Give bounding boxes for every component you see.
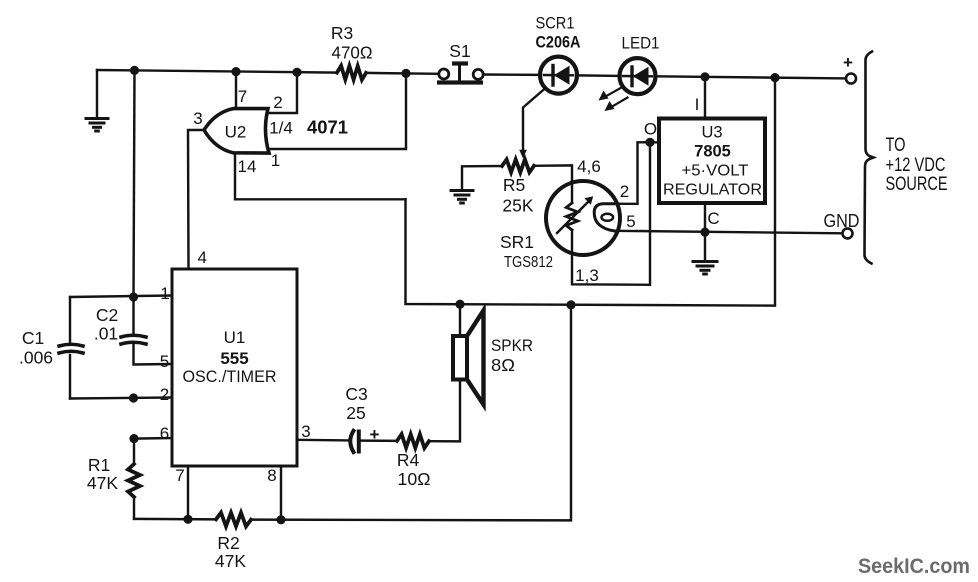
svg-text:4071: 4071 — [307, 118, 348, 138]
capacitor C2 .01 — [121, 297, 146, 344]
wire R4 to speaker — [429, 380, 460, 442]
svg-text:SPKR: SPKR — [491, 336, 533, 355]
wire U3 pin I to rail — [704, 77, 706, 119]
resistor R1 47K — [128, 439, 140, 519]
svg-text:R4: R4 — [397, 450, 420, 470]
svg-text:C206A: C206A — [536, 34, 581, 52]
wire bottom rail — [134, 518, 216, 521]
svg-text:C1: C1 — [22, 328, 44, 348]
svg-text:3: 3 — [193, 109, 202, 128]
wire U2 pin 14 down — [235, 153, 406, 199]
wire SCR1 gate to R5 wiper — [519, 89, 545, 159]
wire U2 pin 2 to rail — [268, 72, 297, 113]
svg-text:C2: C2 — [96, 305, 118, 325]
svg-text:470Ω: 470Ω — [332, 43, 373, 63]
ground (U3) — [693, 262, 717, 275]
wire R3 to S1 — [366, 72, 438, 75]
svg-text:8: 8 — [267, 466, 276, 485]
IC U1 555 OSC./TIMER box — [172, 269, 297, 466]
svg-text:1: 1 — [271, 151, 280, 170]
SCR Q SCR1 C206A — [540, 57, 577, 94]
svg-text:.006: .006 — [19, 348, 53, 368]
pin 5 wire — [134, 345, 173, 365]
wire right bus: pin14 line down, across, up to rail — [406, 78, 776, 306]
wire U2 pin 3 input to U1 pin 4 — [188, 130, 204, 269]
node O stub — [644, 141, 659, 143]
svg-text:4: 4 — [198, 248, 207, 267]
wire top rail left segment (ground to R3) — [97, 70, 337, 73]
wire U2 pin 7 to rail — [235, 72, 237, 109]
svg-text:SeekIC.com: SeekIC.com — [858, 555, 970, 578]
svg-text:C: C — [707, 209, 719, 228]
svg-text:+12 VDC: +12 VDC — [886, 155, 946, 176]
svg-text:U3: U3 — [701, 124, 722, 142]
svg-text:O: O — [644, 120, 657, 139]
IC U3 7805 +5 VOLT REGULATOR box — [659, 119, 765, 204]
svg-text:2: 2 — [273, 93, 282, 112]
wire R5 left to ground — [462, 166, 502, 190]
svg-text:6: 6 — [160, 424, 169, 443]
wire LED1 to + terminal — [656, 76, 847, 78]
svg-text:25K: 25K — [502, 196, 533, 216]
resistor R2 47K — [216, 513, 251, 527]
pin 6 wire — [134, 437, 172, 440]
svg-text:REGULATOR: REGULATOR — [663, 182, 762, 199]
wire U3 pin C down to ground — [704, 203, 706, 261]
capacitor C3 25 (polarized) — [350, 431, 359, 452]
svg-text:1: 1 — [160, 284, 169, 303]
svg-text:2: 2 — [620, 182, 629, 201]
svg-text:2: 2 — [160, 385, 169, 404]
svg-text:U1: U1 — [224, 328, 246, 347]
svg-text:4,6: 4,6 — [577, 157, 601, 176]
svg-text:OSC./TIMER: OSC./TIMER — [183, 368, 277, 386]
svg-text:1,3: 1,3 — [575, 266, 599, 285]
pin 1 wire — [70, 296, 172, 298]
resistor R3 — [337, 66, 366, 80]
svg-text:U2: U2 — [225, 123, 247, 142]
resistor R4 10ohm — [397, 434, 429, 448]
svg-text:S1: S1 — [449, 41, 470, 61]
ground (top left) — [86, 70, 108, 131]
terminal + (to +12 VDC) — [846, 74, 856, 84]
svg-text:5: 5 — [160, 352, 169, 371]
switch S1 pushbutton — [437, 61, 483, 84]
terminal GND — [843, 228, 853, 238]
svg-text:8Ω: 8Ω — [491, 355, 515, 375]
svg-text:7: 7 — [238, 87, 247, 106]
LED LED1 — [599, 58, 656, 111]
svg-text:+: + — [843, 53, 853, 72]
wire SR1 pin 2 to O node — [614, 142, 650, 204]
svg-text:5: 5 — [626, 212, 635, 231]
svg-text:R2: R2 — [217, 533, 239, 553]
svg-text:SOURCE: SOURCE — [886, 174, 948, 195]
sensor SR1 TGS812 — [546, 181, 620, 255]
pin 7 wire — [187, 466, 189, 519]
svg-text:R5: R5 — [503, 175, 525, 195]
wire SCR1 to LED1 — [578, 74, 620, 77]
svg-text:25: 25 — [346, 403, 365, 423]
svg-text:3: 3 — [301, 422, 310, 441]
svg-text:R1: R1 — [88, 455, 110, 475]
speaker SPKR 8ohm — [453, 311, 484, 405]
wire C3 to R4 — [361, 439, 397, 442]
wire SR1 pins 1,3 to O node — [572, 142, 650, 284]
pin 3 wire — [297, 439, 350, 442]
svg-text:555: 555 — [220, 349, 248, 368]
wire rail to U2 pin 1 — [269, 73, 407, 149]
svg-text:LED1: LED1 — [622, 35, 660, 53]
wire bottom rail right — [251, 305, 571, 521]
wire rail to C1/C2/pin1 column — [134, 70, 135, 297]
capacitor C1 .006 — [59, 297, 83, 399]
svg-text:7805: 7805 — [694, 143, 731, 161]
wire S1 to SCR1 — [484, 73, 541, 76]
svg-text:GND: GND — [824, 211, 860, 231]
svg-text:14: 14 — [238, 157, 257, 176]
svg-text:I: I — [695, 95, 700, 114]
wire speaker top to bus — [459, 304, 461, 336]
svg-text:SR1: SR1 — [500, 232, 534, 252]
resistor R5 25K (pot) — [502, 159, 534, 172]
svg-text:SCR1: SCR1 — [536, 15, 575, 33]
svg-text:TGS812: TGS812 — [504, 254, 553, 271]
svg-text:7: 7 — [175, 466, 184, 485]
svg-text:1/4: 1/4 — [269, 119, 293, 138]
brace (to +12 VDC source) — [865, 52, 874, 264]
svg-text:10Ω: 10Ω — [398, 469, 431, 489]
svg-text:.01: .01 — [94, 324, 118, 344]
svg-text:TO: TO — [886, 135, 906, 156]
wire SR1 pin 5 / GND rail — [614, 231, 842, 234]
svg-text:47K: 47K — [215, 551, 246, 571]
pin 2 wire — [70, 398, 172, 399]
ground (R5) — [451, 191, 473, 204]
op-amp U2 (OR gate 1/4 4071) — [204, 109, 269, 153]
pin 8 wire — [280, 466, 282, 520]
svg-text:+5·VOLT: +5·VOLT — [682, 163, 749, 180]
svg-text:47K: 47K — [87, 473, 118, 493]
svg-text:C3: C3 — [345, 384, 367, 404]
wire R5 right to SR1 pin 4,6 — [534, 165, 572, 183]
svg-text:R3: R3 — [331, 23, 353, 43]
